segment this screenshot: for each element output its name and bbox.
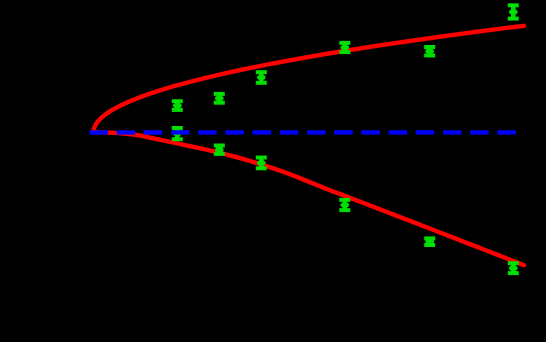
data point U6 with error bar: [508, 5, 519, 18]
data point L2 with error bar: [214, 146, 225, 154]
data point U3 with error bar: [256, 72, 267, 83]
data point U1 with error bar: [172, 101, 183, 110]
data point L1 with error bar: [172, 128, 183, 139]
upper red curve (bifurcation upper branch): [94, 26, 524, 131]
data point U5 with error bar: [424, 47, 435, 56]
data point U2 with error bar: [214, 94, 225, 103]
data point L6 with error bar: [508, 263, 519, 273]
data point L4 with error bar: [339, 200, 350, 210]
blue dashed horizontal line: [90, 130, 517, 134]
lower red curve (bifurcation lower branch): [92, 132, 525, 265]
data point L5 with error bar: [424, 238, 435, 245]
data point U4 with error bar: [339, 43, 350, 52]
data point L3 with error bar: [256, 158, 267, 169]
